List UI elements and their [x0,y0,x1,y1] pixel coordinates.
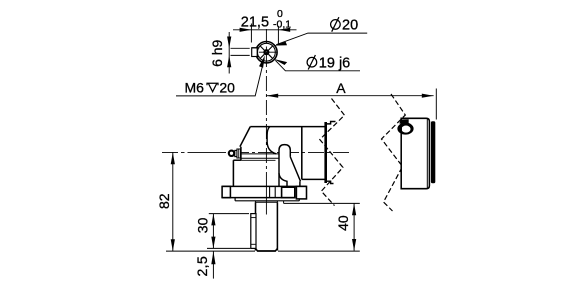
dimension 40 dim line [353,203,355,250]
dimension 82 dim line [172,152,174,251]
leader for d19 j6 [275,60,360,71]
flange left end block [222,186,230,197]
diameter symbol of d20 [331,17,341,32]
flange top step [327,122,336,124]
keyway chord lines [252,48,260,57]
housing left edge [232,160,234,186]
dimension A dim line [266,95,433,97]
eye bolt foot [399,119,408,123]
dimension 40 bottom arrow [352,239,356,251]
spigot left tick [254,201,256,203]
svg-text:2,5: 2,5 [194,256,210,277]
motor flange face thick line [324,122,327,183]
housing bell contour curve [267,127,276,154]
left break zigzag [320,99,345,206]
flange under-step left vertical [234,198,236,201]
dimension A right extension line [435,89,437,120]
cast lobe inner curve [279,173,287,186]
dimension 6 h9 bottom extension line [231,54,250,56]
dimension 21,5 right extension line [277,26,279,45]
dimension 82 top arrow [171,152,175,164]
housing inner ledge line B [241,157,279,159]
housing inner ledge line A [241,153,279,155]
dimension 6 h9 top arrow [227,37,231,49]
dimension 6 h9 dim line [228,32,230,74]
flange under-step right vertical [298,199,300,201]
arrow of d19 leader [274,59,287,65]
dimension 30 bottom arrow [211,237,215,249]
housing inner ledge line C [233,159,275,161]
keyway bottom arc tick [251,243,256,245]
vertical centerline of output shaft [265,29,267,215]
right break zigzag [382,94,406,211]
flange cell divider 1 [269,186,271,197]
svg-text:6 h9: 6 h9 [209,39,225,66]
svg-text:M6: M6 [185,79,205,95]
key end reference line [207,247,250,249]
motor end cap outline [401,118,429,188]
flange band bottom line [222,197,295,199]
grease nipple boss face [240,147,242,161]
shaft keyway side view [251,214,256,249]
housing top-left slope [240,127,250,147]
dimension 30 top arrow [211,214,215,226]
svg-text:82: 82 [156,193,172,209]
grease nipple neck [235,150,237,156]
M6 tapped centre hole [264,50,268,54]
dimension 6 h9 top extension line [231,47,250,49]
arrow of d20 leader [274,42,287,46]
spigot bottom line [255,201,277,203]
svg-text:20: 20 [342,18,358,34]
label M6 depth 20 [185,79,236,95]
dimension 21,5 left extension line [250,24,252,43]
cast lobe left edge and top arc [279,145,290,187]
horizontal centerline input axis [162,151,352,153]
svg-text:30: 30 [194,217,210,233]
step2 vertical [283,201,285,204]
flange cell divider 2 [274,186,276,197]
svg-text:20: 20 [219,79,235,95]
cast lobe on housing (white mask) [279,145,290,187]
diagonal foot vertical [299,181,301,186]
svg-text:-0,1: -0,1 [273,18,291,30]
dimension 82 bottom arrow [171,239,175,251]
shaft end view outer circle d20 [256,42,277,63]
shaft end view inner circle d19 [258,43,276,61]
leader for M6: underline and diagonal [176,59,264,96]
svg-text:40: 40 [335,215,351,231]
flange bottom step [327,181,334,183]
grease nipple body hex [237,149,241,158]
bell cone diagonal [290,157,300,181]
dimension 21,5 dim line [233,29,297,31]
adapter front edge [301,127,303,180]
svg-text:A: A [336,80,346,96]
dimension A right arrow [422,94,434,98]
spigot right tick [276,201,278,203]
housing roof line [250,126,325,128]
boss underside ledge [233,159,241,161]
motor end cap inner line [426,119,428,189]
flange bolt block [282,187,295,197]
dimension 21,5 right arrow [278,28,290,32]
label d20 [342,18,358,34]
keyway in end view [252,48,258,57]
dimension 30 top extension line [209,213,249,215]
grease nipple body inner line [238,149,240,158]
fan cover rim bar [431,121,435,183]
dimension 30 dim line [212,214,214,249]
depth symbol [207,83,218,92]
diameter symbol of d19 [307,55,317,70]
dimension 21,5 left arrow [240,28,252,32]
shaft tip reference line right [278,250,360,252]
flange right end block [296,186,306,199]
output shaft right edge [276,202,278,250]
dimension 2,5 dim line [212,251,214,279]
keyway top arc tick [251,217,256,219]
arrow of M6 leader [259,55,265,67]
dimension 6 h9 bottom arrow [227,55,231,67]
output shaft left edge [255,202,257,250]
dimension 2,5 arrow [211,251,215,264]
shaft end view horizontal centerline inside circle [259,51,277,53]
shaft end view 45deg spokes [260,46,273,59]
flange band top line [222,185,306,187]
svg-text:21,5: 21,5 [241,14,269,30]
flange under-step bottom line [235,200,299,202]
grease nipple ball [229,151,234,156]
output shaft bottom edge [256,249,278,252]
label d19 j6 [319,55,350,71]
dimension A left arrow [266,94,278,98]
svg-text:19 j6: 19 j6 [319,55,350,71]
shaft tip reference line left [166,250,255,252]
dimension 40 top extension line [284,202,360,204]
eye bolt ring [397,123,413,135]
leader for d20 [276,33,367,45]
dimension 40 top arrow [352,203,356,215]
adapter bottom edge [302,178,325,180]
